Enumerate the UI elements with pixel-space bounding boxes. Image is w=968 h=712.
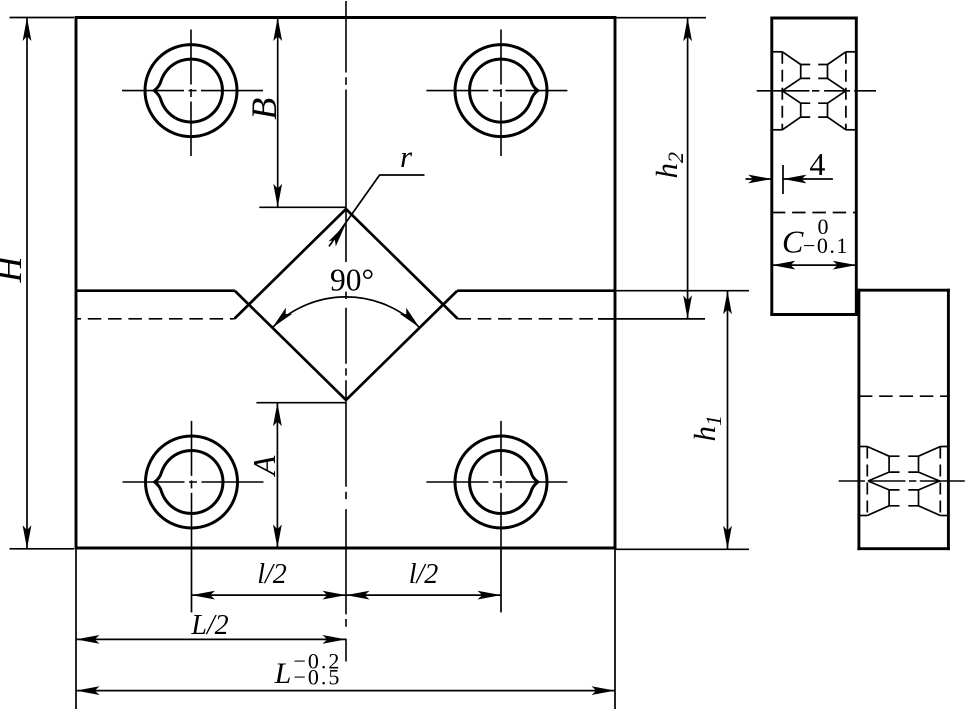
hexagon lower edges [868,481,889,490]
inner verticals bottom [800,103,802,117]
right bar step dashed line [859,395,949,397]
left bar outline [770,17,857,316]
hexagon upper edges [868,472,889,481]
H extension lines [10,17,75,19]
svg-text:l/2: l/2 [257,559,287,590]
hexagon upper edges [782,78,800,90]
svg-text:h2: h2 [649,152,688,179]
diamond lower-left edge extended [235,291,346,400]
hole bottom-left centerlines [123,481,267,483]
slot hidden edge left (dashed) [76,318,235,320]
bottom horizontals [772,129,783,131]
svg-text:L: L [274,657,292,690]
inner verticals top [800,65,802,79]
inner verticals top [888,456,890,472]
90 degree angle arc [273,297,420,328]
slot hidden edge right (dashed) [458,318,614,320]
hole bottom-right: outer circle [455,436,547,528]
label 90deg [326,263,374,292]
hole top-right centerlines [426,90,570,92]
dashed verticals [866,447,868,516]
hole top-right: inner keyhole [470,59,538,122]
A extension line [256,402,345,404]
svg-text:0: 0 [818,214,829,239]
hole bottom-left: outer circle [146,436,238,528]
right bar centerline [839,480,965,482]
dashed horizontals [801,64,828,66]
dimension L line [76,690,615,692]
svg-text:H: H [0,255,29,284]
top horizontals [772,51,783,53]
dimension B line [277,18,279,208]
svg-text:4: 4 [809,146,825,182]
top chamfer diagonals [782,52,800,65]
dashed verticals [781,52,783,130]
svg-text:l/2: l/2 [409,559,439,590]
svg-text:h1: h1 [687,415,726,442]
label C with tolerance [782,214,849,260]
diamond lower-right edge extended [346,291,457,400]
hole top-right: outer circle [455,45,547,137]
dimension l/2 right line [346,594,501,596]
svg-text:−0.5: −0.5 [294,665,342,690]
right bar hole pattern [859,447,949,516]
B extension line [259,206,345,208]
right bar outline [857,289,950,550]
dimension h1 line [727,291,729,550]
svg-text:90°: 90° [330,262,374,297]
svg-text:A: A [246,455,282,477]
top horizontals [859,446,867,448]
arrowheads [23,18,32,42]
dimension l/2 left line [192,594,347,596]
bottom horizontals [859,515,867,517]
dimension A line [276,403,278,548]
r leader line [329,175,425,246]
bottom chamfer diagonals [867,506,889,516]
hole top-left: inner keyhole [154,59,222,122]
diamond (square hole) upper-left edge extended [235,209,347,319]
r leader arrowhead [329,222,350,246]
inner verticals bottom [888,490,890,506]
bottom chamfer diagonals [782,117,800,130]
dimension H line [26,18,28,549]
dimension 4 [746,165,833,194]
left bar hole pattern [772,52,857,130]
dimension L/2 line [76,638,346,640]
hole top-left: outer circle [145,45,237,137]
main vertical centerline [345,1,347,662]
left bar step dashed line [772,212,857,214]
svg-text:C: C [782,224,804,260]
left bar centerline [757,90,876,92]
plate outline [75,16,617,549]
slot top edge right (visible) [457,289,615,292]
angle arc arrowheads [269,308,292,331]
svg-text:B: B [244,98,284,120]
dimension C line [772,264,857,266]
svg-text:L/2: L/2 [190,610,228,641]
hole bottom-right: inner keyhole [470,450,538,513]
dimension h2 line [687,18,689,319]
hole top-left centerlines [122,90,266,92]
hole bottom-left: inner keyhole [155,451,223,514]
dashed horizontals [889,455,918,457]
extension verticals below plate [191,549,193,612]
hexagon lower edges [782,91,800,103]
svg-text:r: r [400,139,413,174]
diamond upper-right edge extended [346,209,458,319]
slot top edge left (visible) [76,289,235,292]
h2 extension lines [616,17,706,19]
top chamfer diagonals [867,447,889,457]
h1 extension lines [616,290,749,292]
hole bottom-right centerlines [426,481,570,483]
